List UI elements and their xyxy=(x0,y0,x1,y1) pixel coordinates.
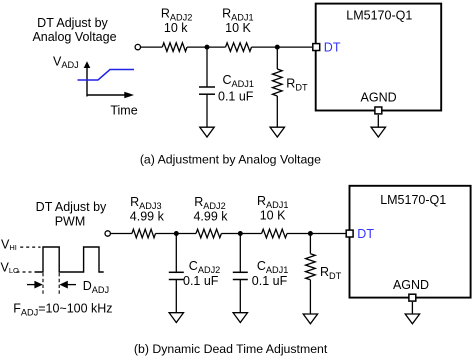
junction node D xyxy=(238,231,243,236)
resistor RDT b xyxy=(306,254,316,280)
wire RADJ1 to DT pin b xyxy=(287,233,346,235)
wire AGND pin to ground xyxy=(377,115,379,127)
svg-text:DT: DT xyxy=(324,41,341,55)
junction node E xyxy=(308,231,313,236)
svg-text:LM5170-Q1: LM5170-Q1 xyxy=(346,9,412,23)
resistor RADJ2 b xyxy=(196,229,221,238)
resistor RADJ1 xyxy=(226,43,252,52)
wire node A to CADJ1 xyxy=(206,47,208,87)
wire node B to RDT xyxy=(276,47,278,69)
svg-text:(b) Dynamic Dead Time Adjustme: (b) Dynamic Dead Time Adjustment xyxy=(134,342,328,356)
svg-text:PWM: PWM xyxy=(55,215,86,229)
VADJ graph time axis xyxy=(87,92,134,99)
ground below RDT b xyxy=(303,314,317,324)
resistor RADJ1 b xyxy=(262,229,287,238)
capacitor CADJ2 xyxy=(169,272,184,279)
junction node A xyxy=(205,45,210,50)
pin DT of U2 xyxy=(346,230,353,237)
dashed duty measure line left xyxy=(42,273,44,294)
svg-text:AGND: AGND xyxy=(393,278,429,292)
wire node D to CADJ1 b xyxy=(239,234,241,273)
capacitor CADJ1 xyxy=(199,87,215,94)
op-amp/IC U1 LM5170-Q1 body xyxy=(316,4,442,111)
svg-text:DT Adjust by: DT Adjust by xyxy=(36,200,107,214)
svg-text:0.1 uF: 0.1 uF xyxy=(183,274,219,288)
VADJ blue analog voltage ramp curve xyxy=(78,70,135,81)
pin AGND of U1 xyxy=(375,107,382,114)
junction node B xyxy=(275,45,280,50)
ground below CADJ1 xyxy=(200,127,214,137)
dashed duty measure line right xyxy=(58,273,60,294)
resistor RDT xyxy=(273,69,283,96)
IC U2 LM5170-Q1 body xyxy=(350,186,471,298)
ground below AGND xyxy=(371,127,385,137)
svg-text:Time: Time xyxy=(110,104,137,118)
ground below CADJ1 b xyxy=(233,313,247,323)
PWM waveform xyxy=(35,247,104,272)
VADJ graph vertical axis xyxy=(84,61,91,96)
dashed leader VHI xyxy=(20,246,40,248)
junction node C xyxy=(174,231,179,236)
wire CADJ1 b to ground xyxy=(239,280,241,313)
resistor RADJ3 xyxy=(132,229,156,238)
svg-text:4.99 k: 4.99 k xyxy=(130,209,165,223)
svg-text:Analog Voltage: Analog Voltage xyxy=(32,30,116,44)
wire terminal to RADJ3 xyxy=(110,233,131,235)
wire RDT b to ground xyxy=(309,280,311,314)
ground below CADJ2 xyxy=(169,313,183,323)
wire AGND pin to ground b xyxy=(411,302,413,314)
pin AGND of U2 xyxy=(409,294,416,301)
svg-text:(a) Adjustment by Analog Volta: (a) Adjustment by Analog Voltage xyxy=(140,152,321,166)
ground below AGND b xyxy=(405,314,419,324)
wire RADJ2 to RADJ1 xyxy=(187,46,226,48)
wire RADJ3 to RADJ2 xyxy=(156,233,197,235)
svg-text:AGND: AGND xyxy=(361,91,397,105)
wire CADJ1 to ground xyxy=(206,94,208,127)
capacitor CADJ1 b xyxy=(233,272,248,279)
svg-text:10 K: 10 K xyxy=(225,21,251,35)
svg-text:10 K: 10 K xyxy=(260,208,286,222)
wire RDT to ground xyxy=(276,96,278,127)
svg-text:DT: DT xyxy=(357,227,374,241)
svg-text:10 k: 10 k xyxy=(164,21,188,35)
svg-text:4.99 k: 4.99 k xyxy=(193,209,228,223)
input terminal b xyxy=(105,231,110,236)
wire RADJ2 to RADJ1 b xyxy=(221,233,261,235)
wire CADJ2 to ground xyxy=(175,280,177,313)
input terminal a xyxy=(135,44,140,49)
svg-text:LM5170-Q1: LM5170-Q1 xyxy=(380,193,446,207)
wire node C to CADJ2 xyxy=(175,234,177,273)
DADJ left arrow xyxy=(27,281,43,289)
wire node E to RDT b xyxy=(309,234,311,254)
title circuit b: DT Adjust by PWM xyxy=(36,200,107,229)
resistor RADJ2 xyxy=(162,43,187,52)
ground below RDT xyxy=(270,127,284,137)
svg-text:DT Adjust by: DT Adjust by xyxy=(37,16,108,30)
wire RADJ1 to DT pin xyxy=(252,46,313,48)
svg-text:0.1 uF: 0.1 uF xyxy=(252,274,288,288)
DADJ right arrow xyxy=(59,281,76,289)
svg-text:0.1 uF: 0.1 uF xyxy=(218,89,254,103)
title circuit a: DT Adjust by Analog Voltage xyxy=(32,16,116,44)
dashed leader VLO xyxy=(17,271,35,273)
pin DT of U1 xyxy=(313,44,320,51)
wire terminal to RADJ2 xyxy=(141,46,163,48)
